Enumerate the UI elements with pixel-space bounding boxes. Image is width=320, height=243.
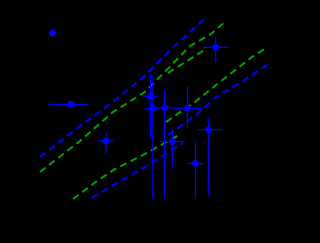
model band lower-inner edge left (green dashed line C) xyxy=(73,135,179,199)
data point P6 with error bars xyxy=(173,86,202,129)
data point P10 with error bars xyxy=(203,37,229,63)
model band lower edge left (blue dashed line D) xyxy=(92,143,183,198)
data point P3 with error bars xyxy=(143,74,158,138)
model band lower edge right (blue dashed line D2) xyxy=(168,64,268,135)
data point P11 with error bars xyxy=(98,133,114,154)
green fan segment G3 xyxy=(168,49,206,73)
data point P4 with error bars xyxy=(145,76,160,199)
data point P9 with error bars xyxy=(198,118,223,196)
data point P2 with horizontal error bar xyxy=(49,101,88,108)
data point P1 xyxy=(49,30,56,37)
data point P7 with error bars xyxy=(160,129,185,167)
data point P8 with error bars xyxy=(187,142,204,199)
model band upper-inner edge (green dashed line B) xyxy=(40,21,226,172)
model band lower-inner edge right (green dashed line C2) xyxy=(166,48,266,122)
model band upper edge (blue dashed line A) xyxy=(40,20,203,157)
data point P5 with error bars xyxy=(157,90,172,198)
